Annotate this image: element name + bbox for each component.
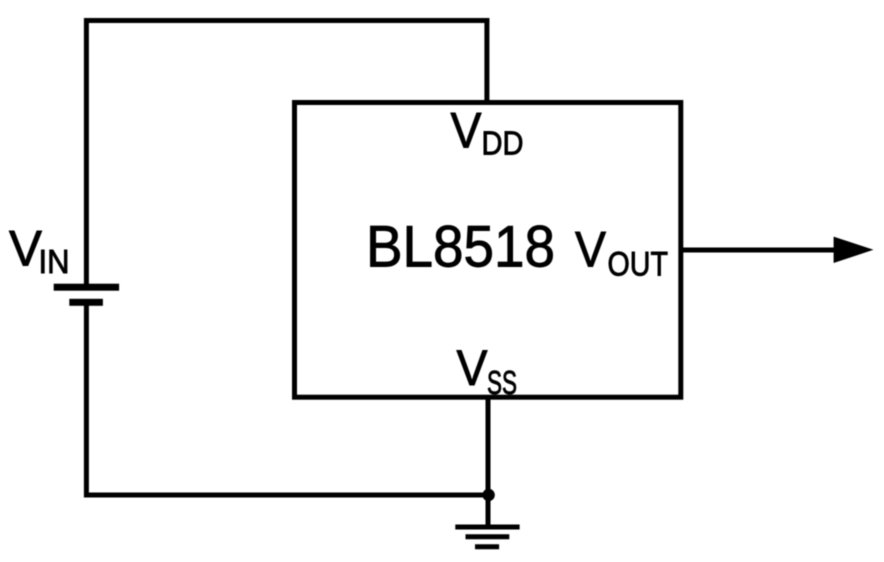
arrowhead on output wire [834,237,874,263]
pin label VDD [451,103,524,162]
svg-text:V: V [575,222,607,278]
ground [455,527,519,547]
wire: bottom horizontal rail from battery to VSS node [84,493,489,498]
wire: top horizontal from battery branch to VDD branch [84,18,489,23]
pin label VOUT [575,222,668,284]
wire: VSS vertical from IC bottom to ground [486,397,491,527]
svg-text:BL8518: BL8518 [366,215,555,280]
battery V1 top plate (long) [54,284,119,291]
svg-text:OUT: OUT [608,246,669,284]
pin label VSS [457,340,518,401]
label VIN [9,221,70,281]
svg-text:V: V [451,103,483,159]
svg-text:DD: DD [482,125,524,162]
svg-text:SS: SS [487,364,517,401]
svg-text:V: V [457,340,489,396]
wire: VDD vertical drop into IC [484,18,489,104]
wire: left vertical from battery bottom plate down to bottom rail [84,302,89,498]
op-amp U1 BL8518 body [295,103,681,398]
wire: left vertical from top corner down to battery top plate [84,18,89,287]
wire: output horizontal from VOUT pin [680,248,845,253]
node junction dot [482,489,494,501]
battery V1 bottom plate (short) [69,299,103,306]
svg-text:IN: IN [39,243,70,280]
